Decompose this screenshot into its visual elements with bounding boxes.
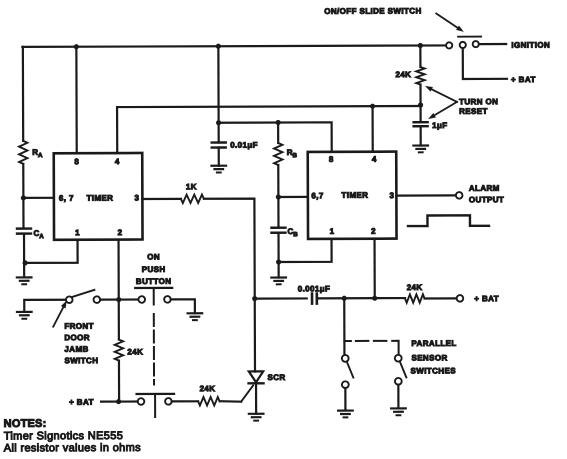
svg-text:ON/OFF SLIDE SWITCH: ON/OFF SLIDE SWITCH xyxy=(324,7,421,16)
svg-text:2: 2 xyxy=(118,228,123,237)
svg-text:NOTES:: NOTES: xyxy=(4,418,47,430)
svg-text:PUSH: PUSH xyxy=(142,265,166,274)
svg-text:+ BAT: + BAT xyxy=(474,294,499,303)
svg-text:RESET: RESET xyxy=(459,107,488,116)
svg-text:6, 7: 6, 7 xyxy=(59,194,74,203)
svg-text:SWITCH: SWITCH xyxy=(64,356,98,365)
svg-text:ALARM: ALARM xyxy=(469,184,500,193)
svg-text:TURN ON: TURN ON xyxy=(459,97,498,106)
svg-text:TIMER: TIMER xyxy=(86,194,113,203)
svg-text:6,7: 6,7 xyxy=(311,191,324,200)
svg-text:1: 1 xyxy=(75,228,80,237)
svg-text:SCR: SCR xyxy=(267,373,285,382)
svg-text:24K: 24K xyxy=(395,70,411,79)
svg-text:+ BAT: + BAT xyxy=(69,398,94,407)
svg-text:FRONT: FRONT xyxy=(64,322,94,331)
svg-text:3: 3 xyxy=(135,194,140,203)
svg-text:JAMB: JAMB xyxy=(64,345,88,354)
svg-text:SWITCHES: SWITCHES xyxy=(410,366,456,375)
svg-text:IGNITION: IGNITION xyxy=(511,41,550,50)
svg-text:BUTTON: BUTTON xyxy=(136,277,172,286)
svg-text:0.001μF: 0.001μF xyxy=(298,284,331,293)
svg-text:ON: ON xyxy=(147,252,160,261)
svg-text:All resistor values in ohms: All resistor values in ohms xyxy=(4,442,141,454)
svg-text:8: 8 xyxy=(74,157,79,166)
svg-text:1: 1 xyxy=(330,227,335,236)
svg-text:24K: 24K xyxy=(407,283,423,292)
svg-text:DOOR: DOOR xyxy=(64,333,90,342)
svg-text:RA: RA xyxy=(32,148,43,159)
svg-text:CA: CA xyxy=(33,229,44,240)
svg-text:24K: 24K xyxy=(200,384,216,393)
svg-text:+ BAT: + BAT xyxy=(511,75,536,84)
svg-text:RB: RB xyxy=(287,148,298,159)
svg-text:0.01μF: 0.01μF xyxy=(230,141,258,150)
svg-text:Timer Signotics NE555: Timer Signotics NE555 xyxy=(4,430,123,442)
svg-text:3: 3 xyxy=(390,191,395,200)
svg-text:TIMER: TIMER xyxy=(341,191,368,200)
svg-text:PARALLEL: PARALLEL xyxy=(411,339,456,348)
svg-text:1μF: 1μF xyxy=(432,121,447,130)
svg-text:SENSOR: SENSOR xyxy=(411,353,447,362)
svg-text:OUTPUT: OUTPUT xyxy=(469,195,504,204)
svg-text:2: 2 xyxy=(371,227,376,236)
svg-text:8: 8 xyxy=(329,155,334,164)
svg-text:1K: 1K xyxy=(186,182,197,191)
svg-text:4: 4 xyxy=(372,155,377,164)
svg-text:24K: 24K xyxy=(127,347,143,356)
svg-text:4: 4 xyxy=(115,157,120,166)
svg-text:CB: CB xyxy=(287,227,298,238)
